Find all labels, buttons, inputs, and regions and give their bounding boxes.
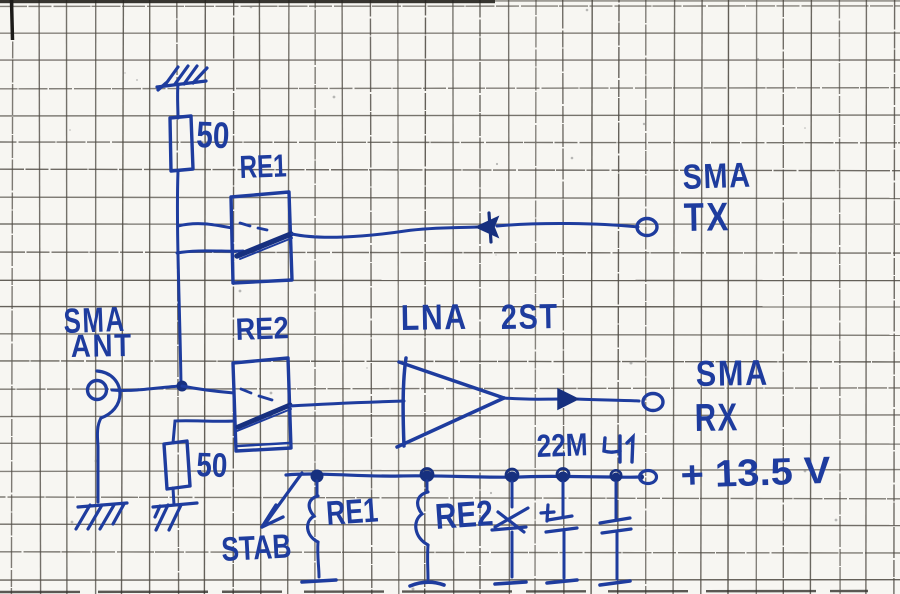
ground (under ANT)	[76, 503, 127, 529]
ground (top, above resistor 50)	[157, 66, 207, 90]
wire LNA output	[504, 398, 560, 399]
wire R2 to ground	[173, 488, 174, 505]
wire RE2 to LNA input	[290, 401, 404, 406]
amplifier LNA triangle	[397, 358, 504, 447]
svg-text:50: 50	[196, 114, 230, 156]
junction dot (cap C2)	[612, 473, 621, 482]
svg-text:RX: RX	[694, 396, 739, 440]
diode D1 (zener)	[492, 508, 528, 532]
ground (under R2)	[153, 503, 197, 530]
relay coil RE2 (brace)	[426, 481, 429, 492]
ground (RE2 coil)	[410, 582, 444, 586]
svg-text:+ 13.5 V: + 13.5 V	[680, 450, 832, 497]
supply bus wire	[286, 474, 640, 477]
junction dot (RE1 coil)	[311, 470, 324, 483]
ground (diode)	[495, 582, 526, 584]
relay RE2 box	[233, 358, 291, 451]
wire ANT to node A	[112, 386, 181, 390]
wire RE2 lower contact to R2	[173, 421, 234, 443]
capacitor C2	[600, 518, 631, 533]
wire C1 to ground	[563, 531, 566, 578]
svg-text:RE1: RE1	[325, 491, 380, 533]
RE1 switch arm	[237, 234, 291, 256]
RE2 contact dashes	[241, 389, 272, 400]
svg-text:SMA: SMA	[682, 156, 752, 197]
wire R1 down to node A (main vertical)	[177, 171, 181, 386]
wire ground to R1	[176, 84, 179, 118]
label 41	[604, 436, 633, 462]
svg-text:22M: 22M	[536, 426, 588, 464]
wire node to RE1 upper contact	[178, 224, 232, 228]
wire C2 to ground	[616, 533, 619, 579]
ground (C1)	[547, 580, 577, 583]
relay coil RE1 (brace)	[316, 481, 319, 496]
svg-text:50: 50	[196, 446, 228, 485]
wire diode to ground	[511, 532, 514, 577]
SMA ANT connector	[88, 381, 107, 400]
wire RE1 to SMA TX	[292, 227, 478, 237]
ground (C2)	[600, 581, 630, 585]
wire node A to RE2	[182, 386, 234, 393]
STAB annotation arrow	[265, 473, 302, 524]
wire node to RE1 lower contact	[177, 251, 243, 253]
ground (RE1 coil)	[302, 580, 336, 582]
RE2 switch arm	[238, 405, 290, 427]
svg-text:RE2: RE2	[235, 310, 289, 347]
junction dot (RE2 coil)	[422, 471, 433, 482]
svg-text:ANT: ANT	[70, 327, 133, 364]
capacitor C1 (electrolytic, +)	[541, 505, 577, 532]
wire ANT connector down to ground	[97, 418, 101, 502]
wire bus to C1	[562, 482, 565, 517]
relay RE1 box	[231, 192, 292, 283]
RE1 contact dashes	[240, 223, 267, 230]
resistor R2 50 ohm (bottom)	[164, 441, 190, 489]
svg-text:TX: TX	[683, 195, 731, 240]
svg-text:2ST: 2ST	[500, 297, 559, 337]
svg-text:RE2: RE2	[434, 492, 495, 537]
wire bus to diode	[511, 482, 514, 507]
junction dot (diode)	[507, 472, 518, 483]
wire bus to C2	[615, 482, 618, 519]
arrowhead (toward RE1)	[476, 217, 498, 237]
resistor R1 50 ohm (top)	[170, 116, 193, 171]
svg-text:RE1: RE1	[239, 147, 287, 185]
svg-text:LNA: LNA	[400, 296, 468, 338]
node A junction dot	[177, 381, 188, 392]
supply terminal circle +13.5V	[638, 474, 644, 480]
svg-text:STAB: STAB	[220, 527, 292, 569]
svg-text:SMA: SMA	[695, 352, 769, 394]
junction dot (cap C1)	[558, 472, 569, 483]
SMA TX connector circle	[637, 219, 657, 236]
arrowhead (toward RX)	[558, 389, 578, 409]
SMA RX connector circle	[643, 394, 663, 411]
